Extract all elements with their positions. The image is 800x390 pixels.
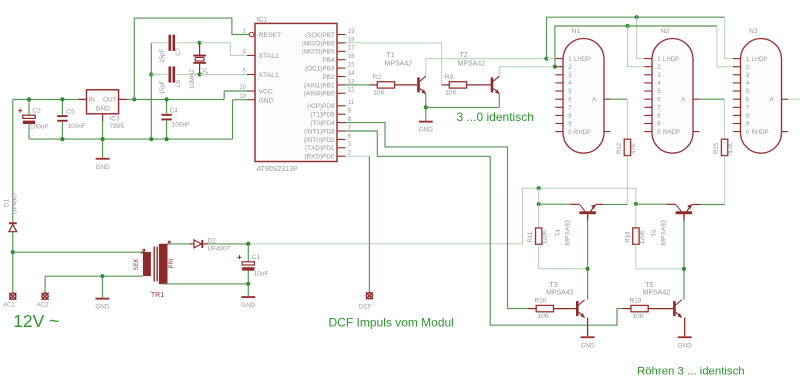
wire to ground — [101, 276, 103, 298]
svg-text:C7: C7 — [175, 47, 182, 55]
pin 20 VCC — [247, 90, 255, 92]
svg-text:PRI: PRI — [169, 258, 175, 268]
svg-text:(MISO)PB6: (MISO)PB6 — [302, 40, 335, 47]
svg-text:SEK: SEK — [134, 258, 140, 270]
junction C1 gnd — [246, 282, 250, 286]
svg-text:MPSA92: MPSA92 — [564, 219, 571, 245]
svg-text:(T1)PD5: (T1)PD5 — [310, 112, 335, 119]
svg-text:(OC1)PB3: (OC1)PB3 — [305, 66, 335, 73]
svg-text:10K: 10K — [538, 313, 550, 320]
resistor R2 10K — [377, 82, 394, 88]
ground T3 — [581, 336, 595, 338]
junction rail C4 — [165, 97, 169, 101]
wire pin 8 to R10 — [346, 123, 528, 309]
wire to ground — [425, 107, 427, 120]
svg-text:47K: 47K — [728, 143, 735, 154]
wire R11 to T4 base net — [539, 244, 588, 268]
wire to VCC pin 20 — [224, 91, 247, 99]
svg-text:LHDP: LHDP — [663, 57, 679, 63]
pin 10 GND — [247, 99, 255, 101]
resistor R9 10K — [449, 82, 466, 88]
svg-text:(RXD)PD0: (RXD)PD0 — [304, 154, 335, 161]
wire C5 to GND net — [61, 122, 63, 139]
svg-text:R11: R11 — [527, 231, 534, 242]
svg-text:(AIN1)PB1: (AIN1)PB1 — [304, 82, 335, 89]
pin 17 (MOSI)PB5 — [337, 50, 346, 52]
nixie tube N1 — [563, 38, 604, 153]
wire to R11 — [538, 204, 540, 228]
svg-text:PB4: PB4 — [322, 57, 335, 64]
svg-text:A: A — [681, 96, 686, 103]
svg-text:17: 17 — [348, 46, 355, 52]
transformer TR1 — [143, 252, 151, 276]
svg-text:AT90S2313P: AT90S2313P — [257, 166, 298, 173]
svg-text:(SCK)PB7: (SCK)PB7 — [305, 32, 335, 39]
transistor T6 (PNP MPSA92) — [676, 211, 693, 214]
svg-text:GND: GND — [581, 342, 595, 349]
pin 15 (OC1)PB3 — [337, 67, 346, 69]
junction HV T6 emitter net — [634, 202, 638, 206]
wire TR1 PRI bottom to gnd — [163, 283, 248, 285]
junction caps gnd — [149, 137, 153, 141]
svg-text:C2: C2 — [33, 108, 42, 115]
svg-text:(INT1)PD3: (INT1)PD3 — [304, 128, 335, 135]
nixie tube N2 — [652, 38, 693, 153]
svg-text:RHDP: RHDP — [574, 130, 591, 136]
wire to DCF terminal — [368, 156, 370, 292]
svg-text:AC2: AC2 — [37, 301, 50, 308]
svg-text:MPSA92: MPSA92 — [661, 219, 668, 245]
junction HV line R11 drop — [537, 186, 541, 190]
pin 11 (ICP)PD6 — [337, 105, 346, 107]
svg-text:DCF Impuls vom Modul: DCF Impuls vom Modul — [329, 315, 454, 329]
junction C5 GND — [60, 137, 64, 141]
resistor R13 10K — [631, 305, 648, 311]
junction N1 pin1 — [544, 57, 548, 61]
pin 7 (INT1)PD3 — [337, 130, 346, 132]
terminal AC1 — [10, 293, 16, 299]
wire pin 10 stub — [233, 99, 248, 101]
svg-text:XTAL2: XTAL2 — [259, 53, 279, 60]
wire HV to T6 emitter — [636, 203, 667, 205]
wire pin 10 down to GND net — [232, 100, 234, 139]
svg-text:15: 15 — [348, 63, 355, 69]
wire rail1 to N2 pin 1 — [637, 17, 646, 58]
svg-text:19: 19 — [348, 29, 355, 35]
svg-text:10: 10 — [239, 94, 246, 100]
resistor R14 120K — [633, 228, 639, 244]
svg-text:47K: 47K — [630, 143, 637, 154]
wire rail to C5 — [61, 99, 63, 115]
junction rail C5 — [60, 97, 64, 101]
svg-text:12: 12 — [348, 88, 355, 94]
svg-text:IC3: IC3 — [110, 115, 121, 122]
pin 2 (RXD)PD0 — [337, 155, 346, 157]
wire AC1/D1 vertical upper — [12, 99, 14, 222]
wire N2 anode down to R15 — [724, 99, 726, 139]
wire T6 base to T5 collector — [683, 214, 685, 300]
capacitor C4 100nF — [161, 114, 171, 116]
svg-text:UF4007: UF4007 — [208, 246, 231, 253]
resistor R10 10K — [536, 305, 553, 311]
wire D2 to C1 — [208, 243, 248, 245]
svg-text:PB2: PB2 — [322, 74, 335, 81]
junction T1/T2 emitters — [424, 105, 428, 109]
junction rail C2 — [27, 97, 31, 101]
svg-text:UF4007: UF4007 — [11, 191, 18, 214]
wire C6 to crystal bottom — [176, 74, 199, 76]
wire pin 13 to R2 — [346, 84, 370, 86]
wire T6 collector to R15 — [701, 204, 725, 206]
svg-text:15pF: 15pF — [159, 80, 166, 94]
pin 9 (T1)PD5 — [337, 113, 346, 115]
wire R12 to T4 collector — [626, 156, 628, 205]
ground T5 — [678, 336, 692, 338]
svg-text:100uF: 100uF — [30, 124, 48, 131]
wire AC2 to TR1 SEK bottom — [45, 275, 143, 277]
svg-text:(ICP)PD6: (ICP)PD6 — [307, 103, 335, 110]
svg-text:100nF: 100nF — [67, 123, 85, 130]
capacitor C6 15pF — [169, 66, 172, 82]
pin 19 (SCK)PB7 — [337, 34, 346, 36]
terminal AC2 — [42, 293, 48, 299]
svg-text:C6: C6 — [175, 79, 182, 87]
svg-text:MPSA42: MPSA42 — [458, 60, 486, 67]
wire 7805 GND down — [102, 121, 104, 158]
svg-text:Röhren 3 ... identisch: Röhren 3 ... identisch — [637, 365, 745, 377]
svg-text:MPSA42: MPSA42 — [546, 290, 574, 297]
ground below 7805 — [96, 158, 110, 160]
svg-text:10MHZ: 10MHZ — [189, 69, 196, 89]
svg-text:20: 20 — [239, 85, 246, 91]
svg-text:100nF: 100nF — [172, 122, 190, 129]
transistor T5 (NPN MPSA42) — [673, 301, 676, 316]
svg-text:N1: N1 — [572, 28, 581, 35]
pin 1 RESET bubble — [249, 32, 254, 37]
ground AC input — [95, 298, 109, 300]
svg-text:GND: GND — [241, 302, 255, 309]
svg-text:T2: T2 — [460, 52, 468, 59]
capacitor C1 10uF (electrolytic) — [242, 262, 254, 265]
wire emitters common — [426, 106, 500, 108]
svg-text:MPSA42: MPSA42 — [385, 60, 413, 67]
IC IC1 AT90S2313P — [255, 23, 337, 161]
svg-text:R10: R10 — [535, 298, 547, 305]
svg-text:N2: N2 — [661, 28, 670, 35]
svg-text:RHDP: RHDP — [752, 130, 769, 136]
svg-text:GND: GND — [95, 106, 110, 113]
transistor T3 (NPN MPSA42) — [576, 301, 579, 316]
junction T6 base R14 — [682, 267, 686, 271]
svg-text:C4: C4 — [170, 107, 179, 114]
wire C1 to gnd net — [247, 271, 249, 284]
junction T4 base R11 — [586, 267, 590, 271]
transistor T2 (NPN MPSA42) — [491, 77, 494, 92]
wire crystal caps ground vertical — [150, 43, 152, 139]
wire R15 to T6 collector — [724, 156, 726, 205]
svg-text:(INT0)PD2: (INT0)PD2 — [304, 137, 335, 144]
svg-text:VCC: VCC — [259, 89, 273, 96]
wire to R14 — [635, 204, 637, 228]
junction rail2 N2 drop — [625, 24, 629, 28]
svg-text:T5: T5 — [645, 282, 653, 289]
resistor R15 47K — [721, 139, 727, 155]
capacitor C5 100nF — [57, 115, 67, 117]
transistor T1 (NPN MPSA42) — [417, 77, 420, 92]
wire cathode-2 rail — [555, 26, 717, 67]
pin 8 (T0)PD4 — [337, 122, 346, 124]
svg-text:IC1: IC1 — [257, 16, 268, 23]
wire VCC rail from D1 to IC1 — [13, 98, 224, 100]
svg-text:T4: T4 — [555, 229, 562, 237]
svg-text:18: 18 — [348, 37, 355, 43]
svg-text:RESET: RESET — [259, 32, 282, 39]
svg-text:GND: GND — [96, 164, 110, 171]
ground HV — [241, 296, 255, 298]
wire C2 to GND net — [28, 124, 30, 139]
svg-text:3 ...0 identisch: 3 ...0 identisch — [457, 110, 534, 124]
wire AC1 to TR1 SEK top — [13, 251, 143, 253]
nixie tube N3 — [741, 38, 782, 153]
wire N1 anode — [610, 98, 627, 100]
voltage regulator IC3 7805 — [87, 90, 119, 114]
pin 13 (AIN1)PB1 — [337, 84, 346, 86]
svg-text:DCF: DCF — [359, 304, 372, 311]
wire HV drop — [538, 188, 540, 204]
wire rail2 to N3 pin 2 — [717, 26, 738, 67]
svg-text:T3: T3 — [550, 282, 558, 289]
junction crystal bottom — [198, 72, 202, 76]
svg-text:LHDP: LHDP — [752, 57, 768, 63]
junction N1 pin2 — [553, 65, 557, 69]
svg-text:10K: 10K — [633, 313, 645, 320]
junction 7805 OUT / reset wire — [132, 97, 136, 101]
junction C4 GND — [165, 137, 169, 141]
svg-text:10K: 10K — [373, 89, 385, 96]
svg-text:RHDP: RHDP — [663, 130, 680, 136]
wire T2 collector to N1 pin 2 net — [499, 67, 555, 76]
wire D1 to AC1 — [12, 232, 14, 293]
svg-text:N3: N3 — [749, 28, 758, 35]
wire T4 collector to R12 — [603, 203, 627, 205]
svg-text:R15: R15 — [713, 142, 720, 154]
wire to ground — [247, 284, 249, 296]
junction C6 left — [149, 72, 153, 76]
svg-text:C5: C5 — [66, 109, 75, 116]
svg-text:LHDP: LHDP — [574, 57, 590, 63]
transistor T4 (PNP MPSA92) — [579, 211, 596, 214]
pin 16 PB4 — [337, 59, 346, 61]
wire rail2 to N2 pin 2 — [628, 26, 646, 67]
wire cathode-1 rail — [547, 17, 725, 58]
junction AC1 / TR1 SEK — [11, 250, 15, 254]
wire rail to C4 — [166, 99, 168, 114]
svg-text:IN: IN — [89, 97, 96, 104]
wire GND net horizontal — [29, 138, 233, 140]
svg-text:12V ~: 12V ~ — [13, 311, 59, 331]
svg-text:120K: 120K — [542, 230, 549, 244]
wire to C1 — [247, 244, 249, 262]
svg-text:A: A — [592, 96, 597, 103]
wire R14 to T6 base net — [636, 244, 684, 269]
svg-text:16: 16 — [348, 54, 355, 60]
svg-text:T1: T1 — [387, 52, 395, 59]
junction AC2 gnd — [100, 274, 104, 278]
svg-text:(AIN0)PB0: (AIN0)PB0 — [304, 91, 335, 98]
wire into N1 pin1 — [547, 58, 556, 60]
svg-text:R9: R9 — [445, 74, 454, 81]
junction rail1 N2 drop — [635, 15, 639, 19]
svg-text:15pF: 15pF — [159, 49, 166, 63]
svg-text:R14: R14 — [624, 231, 631, 243]
wire N3 anode to edge — [788, 98, 800, 100]
wire T1 collector to N1 pin 1 net — [426, 59, 547, 76]
pin 3 (TXD)PD1 — [337, 147, 346, 149]
svg-text:GND: GND — [259, 97, 274, 104]
svg-text:A: A — [770, 96, 775, 103]
svg-text:(T0)PD4: (T0)PD4 — [310, 120, 335, 127]
wire C7 to crystal top — [176, 42, 199, 44]
crystal Q1 10MHZ — [199, 43, 201, 55]
capacitor C7 15pF — [169, 35, 172, 51]
junction D2 C1 HV — [246, 242, 250, 246]
wire VCC to RESET pin 1 — [134, 18, 249, 99]
wire crystal to XTAL1 pin 5 — [200, 74, 247, 76]
wire C4 to GND net — [166, 120, 168, 139]
diode D2 UF4007 — [190, 243, 194, 245]
svg-text:120K: 120K — [639, 230, 646, 244]
resistor R12 47K — [624, 139, 630, 155]
svg-text:GND: GND — [95, 304, 109, 311]
wire HV supply line — [248, 188, 636, 244]
pin 4 XTAL2 — [247, 54, 255, 56]
junction 7805 GND net — [101, 137, 105, 141]
diode D1 UF4007 — [9, 222, 17, 224]
wire pin 18 to R9 — [346, 43, 442, 85]
pin 14 PB2 — [337, 76, 346, 78]
svg-text:R13: R13 — [630, 298, 642, 305]
svg-text:AC1: AC1 — [3, 301, 16, 308]
wire T1 emitter down — [425, 94, 427, 108]
junction T4 emitter net — [537, 202, 541, 206]
pin 6 (INT0)PD2 — [337, 138, 346, 140]
pin 5 XTAL1 — [247, 74, 255, 76]
wire T4 base to T3 collector — [587, 214, 589, 300]
svg-text:C1: C1 — [252, 254, 261, 261]
terminal DCF — [366, 293, 372, 299]
pin 12 (AIN0)PB0 — [337, 92, 346, 94]
wire crystal to XTAL2 pin 4 — [200, 43, 247, 56]
svg-text:(MOSI)PB5: (MOSI)PB5 — [302, 49, 335, 56]
wire T2 emitter down — [498, 94, 500, 108]
svg-text:R12: R12 — [616, 142, 623, 154]
wire HV to T4 emitter — [539, 203, 571, 205]
wire N2 anode — [699, 98, 724, 100]
wire rail1 to N3 pin 1 — [725, 17, 738, 58]
svg-text:GND: GND — [419, 127, 433, 134]
svg-text:10uF: 10uF — [254, 270, 269, 277]
capacitor C2 100uF (electrolytic) — [23, 115, 35, 118]
wire rail to C2 — [28, 99, 30, 115]
svg-text:10K: 10K — [445, 89, 457, 96]
wire pin 7 to R13 — [346, 131, 623, 325]
svg-text:T6: T6 — [651, 229, 658, 237]
wire AC2 up — [44, 276, 46, 293]
svg-text:XTAL1: XTAL1 — [259, 72, 279, 79]
wire pin 2 RXD — [346, 155, 370, 157]
svg-text:MPSA42: MPSA42 — [643, 290, 671, 297]
pin 18 (MISO)PB6 — [337, 42, 346, 44]
svg-text:D1: D1 — [4, 198, 11, 206]
wire N1 anode down to R12 — [626, 99, 628, 139]
svg-text:(TXD)PD1: (TXD)PD1 — [305, 145, 335, 152]
svg-text:7805: 7805 — [110, 123, 125, 130]
resistor R11 120K — [536, 228, 542, 244]
wire TR1 PRI to D2 — [168, 243, 191, 245]
junction crystal top — [198, 41, 202, 45]
svg-text:11: 11 — [348, 100, 355, 106]
wire to C7 left — [151, 42, 167, 44]
wire to C6 left — [151, 74, 167, 76]
svg-text:GND: GND — [678, 342, 692, 349]
svg-text:14: 14 — [348, 71, 355, 77]
svg-text:R2: R2 — [373, 74, 382, 81]
ground T1 T2 — [419, 121, 433, 123]
svg-text:TR1: TR1 — [151, 292, 164, 299]
svg-text:OUT: OUT — [103, 97, 117, 104]
